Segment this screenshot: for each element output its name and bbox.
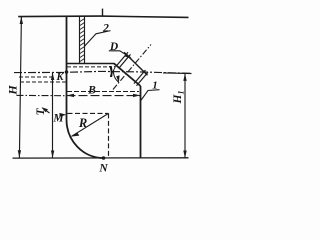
arrow T bottom [51, 151, 54, 159]
dimension B line [67, 95, 141, 97]
svg-text:γ: γ [109, 61, 116, 78]
M leader arrow [60, 113, 67, 117]
pipe upper wall [117, 52, 129, 66]
centerline right extension [163, 72, 192, 75]
arrow H bottom [18, 150, 21, 158]
top tick mark [102, 9, 104, 17]
tube hatching [80, 19, 85, 62]
baseline [13, 157, 189, 159]
arrow B right [133, 94, 141, 97]
wall right of body [140, 86, 142, 158]
radius R line [72, 113, 109, 136]
svg-text:2: 2 [102, 23, 109, 35]
pipe lower wall [134, 70, 146, 84]
arrow H1 bottom [183, 151, 186, 159]
pipe mouth [124, 52, 148, 75]
tube item2 right wall [84, 17, 86, 64]
svg-text:1: 1 [152, 80, 158, 92]
main centerline [14, 71, 192, 73]
hidden dashed line inside top [67, 66, 110, 68]
dimension H1 line [184, 73, 186, 157]
angle arc gamma [114, 70, 119, 82]
node K dot [65, 70, 69, 74]
hidden dashed line inside lower [67, 91, 139, 93]
body top edge [67, 63, 115, 65]
dimension H line [19, 17, 21, 158]
chamfer edge [114, 63, 141, 86]
svg-text:M: M [52, 113, 64, 125]
arc center dashed horizontal [68, 112, 109, 114]
svg-text:H: H [6, 85, 20, 96]
hidden dashed line left lower [20, 81, 66, 83]
pipe axis [113, 45, 151, 90]
svg-text:B: B [87, 85, 96, 97]
svg-text:N: N [98, 163, 108, 175]
node N dot [102, 156, 106, 160]
top plate line [18, 16, 188, 17]
bottom arc [67, 120, 104, 159]
svg-text:K: K [55, 72, 64, 83]
svg-text:R: R [78, 116, 87, 130]
leader for label 2 [85, 31, 111, 47]
tube item2 left wall [79, 17, 81, 64]
arrow T top [51, 73, 54, 81]
leader for label 1 [141, 90, 160, 101]
hidden dashed line left upper [19, 76, 53, 78]
arrow B left [67, 94, 75, 97]
chain line left at M level [17, 94, 67, 96]
dimension T line [52, 73, 54, 158]
arrow H1 top [183, 73, 186, 81]
svg-text:T: T [35, 108, 47, 116]
arrow H top [20, 17, 23, 25]
wall left of body [66, 17, 68, 120]
arc center dashed vertical [108, 113, 110, 157]
svg-text:D: D [109, 41, 119, 53]
leader for label D [109, 51, 131, 58]
T leader arrow [43, 108, 50, 113]
arrow R [71, 133, 79, 137]
